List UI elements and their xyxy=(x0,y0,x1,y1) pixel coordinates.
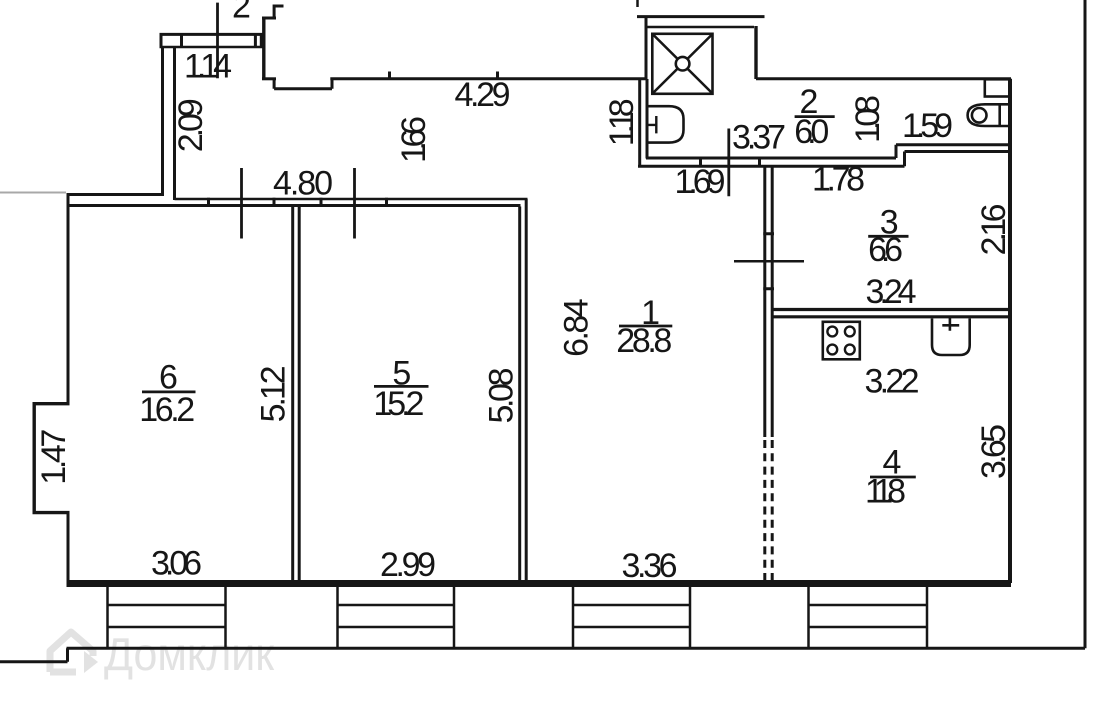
bathroom top line outer xyxy=(637,15,765,18)
room 3 fraction bar xyxy=(868,235,908,238)
watermark logo house xyxy=(50,632,98,673)
window 3 xyxy=(573,587,690,649)
room 6 top wall upper line xyxy=(67,193,165,196)
svg-text:5.12: 5.12 xyxy=(255,365,293,422)
hall-room34 wall dashed xyxy=(765,440,772,580)
room 6 fraction bar xyxy=(142,390,196,393)
dim extension lines 4.80 xyxy=(242,168,355,239)
stove burner 4 xyxy=(845,345,855,355)
toilet xyxy=(648,106,684,142)
bathroom bottom ticks xyxy=(701,158,760,166)
stove burner 3 xyxy=(827,345,837,355)
top-left window band xyxy=(160,33,264,36)
upper-left wall outer xyxy=(161,47,164,196)
svg-text:2: 2 xyxy=(232,0,251,25)
cropped step above hall xyxy=(262,5,284,19)
svg-text:1.08: 1.08 xyxy=(849,95,887,143)
top-left window ticks xyxy=(182,34,256,48)
bathroom bottom lower contour xyxy=(638,152,1010,167)
band lower line rooms 5-6 xyxy=(67,204,521,207)
svg-text:6.0: 6.0 xyxy=(794,113,829,151)
washbasin bowl xyxy=(972,108,987,123)
svg-text:1.59: 1.59 xyxy=(902,107,953,145)
svg-text:3.06: 3.06 xyxy=(151,545,202,583)
window 1 xyxy=(108,587,226,649)
top-left window end caps xyxy=(161,33,261,48)
kitchen sink bowl xyxy=(932,319,970,356)
shower diagonals xyxy=(653,35,712,94)
dimension texts xyxy=(35,0,1013,585)
band upper line rooms 5-6 xyxy=(175,198,528,201)
dim extension line 1.14 xyxy=(216,3,219,79)
fraction bars xyxy=(142,117,916,477)
left wall room 6 lower xyxy=(67,513,70,583)
room 3 bottom wall xyxy=(771,310,1008,317)
svg-text:Домклик: Домклик xyxy=(104,628,275,680)
room 1 fraction bar xyxy=(619,325,672,328)
hall-room34 wall solid xyxy=(765,167,772,437)
stove burner 1 xyxy=(827,327,837,337)
svg-text:16.2: 16.2 xyxy=(139,391,195,429)
top-left window inner line xyxy=(160,46,264,49)
hall top recess xyxy=(274,78,332,89)
room 2 fraction bar xyxy=(795,115,835,118)
washbasin body xyxy=(968,104,1009,126)
bathroom right wall xyxy=(754,26,757,79)
gray stub line left of room 6 corner xyxy=(0,192,66,194)
svg-text:4.80: 4.80 xyxy=(273,165,333,203)
hall-room34 wall ticks xyxy=(763,234,774,289)
washbasin xyxy=(968,104,1009,126)
watermark arrow xyxy=(84,651,98,673)
watermark house base xyxy=(50,669,76,676)
bottom wall xyxy=(67,580,1012,587)
left wall room 6 upper xyxy=(67,195,70,404)
room 5 fraction bar xyxy=(374,385,429,388)
svg-text:2.09: 2.09 xyxy=(172,98,210,152)
stove burner 2 xyxy=(845,327,855,337)
svg-text:4.29: 4.29 xyxy=(455,76,511,114)
bathroom left wall inner xyxy=(646,79,649,159)
toilet cistern mark xyxy=(648,116,657,133)
bathroom left wall upper xyxy=(645,17,648,79)
left bump xyxy=(33,402,70,513)
kitchen sink xyxy=(932,318,970,355)
top cropped stub xyxy=(636,0,639,7)
svg-text:15.2: 15.2 xyxy=(373,385,424,423)
svg-text:3.24: 3.24 xyxy=(866,273,917,311)
window 4 xyxy=(809,587,928,649)
svg-text:3.36: 3.36 xyxy=(622,547,678,585)
outline right xyxy=(1084,0,1087,648)
svg-text:1.69: 1.69 xyxy=(675,163,726,201)
svg-text:1.14: 1.14 xyxy=(184,48,232,86)
svg-text:2.99: 2.99 xyxy=(380,546,436,584)
washbasin divider xyxy=(998,104,1001,126)
band ticks xyxy=(209,198,387,207)
right wall xyxy=(1008,79,1012,583)
svg-text:1.66: 1.66 xyxy=(395,116,433,163)
svg-text:3.37: 3.37 xyxy=(732,119,786,157)
vent box xyxy=(985,79,1010,96)
svg-text:1.18: 1.18 xyxy=(603,98,641,146)
outline bottom-left stub xyxy=(0,648,68,662)
bathroom left wall outer xyxy=(638,78,641,168)
top wall right section xyxy=(756,77,1011,80)
svg-text:1.78: 1.78 xyxy=(812,161,865,199)
svg-text:2.16: 2.16 xyxy=(975,204,1013,256)
svg-text:3.65: 3.65 xyxy=(975,424,1013,479)
stove xyxy=(823,322,860,360)
bathroom bottom upper contour xyxy=(646,145,1010,158)
stove body xyxy=(823,322,860,360)
watermark house outline xyxy=(50,632,93,672)
upper-left area right wall xyxy=(262,17,265,80)
window 2 xyxy=(338,587,455,649)
shower xyxy=(652,34,712,94)
svg-text:5.08: 5.08 xyxy=(483,368,521,424)
shower tray xyxy=(652,34,712,94)
hall top wall xyxy=(330,77,647,80)
room 5-1 wall xyxy=(520,199,527,580)
svg-text:28.8: 28.8 xyxy=(616,322,672,360)
toilet bowl xyxy=(648,106,684,142)
outline bottom xyxy=(67,647,1086,650)
dimension line crossing wall xyxy=(734,260,804,263)
bathroom top line inner xyxy=(647,26,755,29)
shower drain xyxy=(676,57,690,71)
hall top wall ticks xyxy=(390,72,498,79)
svg-text:6.84: 6.84 xyxy=(558,298,596,357)
svg-text:3.22: 3.22 xyxy=(865,363,920,401)
kitchen sink tap xyxy=(942,318,959,331)
hall top-left segment xyxy=(262,77,276,80)
upper-left wall inner xyxy=(173,47,176,200)
room 4 fraction bar xyxy=(870,476,916,479)
room 5-6 wall xyxy=(293,207,300,581)
dim extension line 1.69 xyxy=(727,129,730,197)
svg-text:1.47: 1.47 xyxy=(35,429,73,485)
